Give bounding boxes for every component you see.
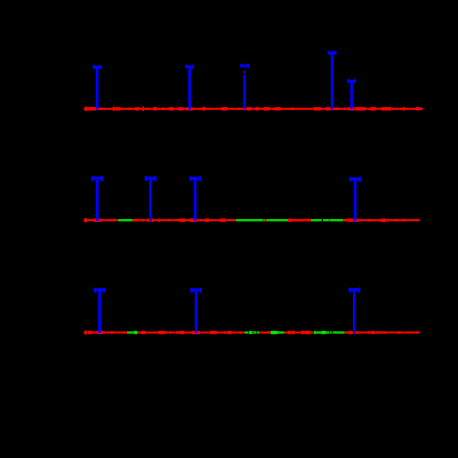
row 1 stem 1 [93, 65, 102, 109]
row 2 stem 4 [349, 177, 361, 221]
row 2 green segment 2 [236, 219, 288, 221]
row 1 stem 4 [328, 51, 337, 110]
row 1 stem 2 [185, 65, 194, 110]
row 2 green underlays [118, 218, 343, 222]
row 2 green segment 1 [118, 219, 132, 221]
row 2 red event marks [84, 219, 420, 222]
row 3 green segment 1 [127, 331, 137, 334]
row 1 stem 3 [240, 64, 249, 110]
row 2 baseline start arrow [83, 218, 86, 222]
row 1 baseline start arrow [83, 107, 86, 111]
row 2 green segment 3 [311, 219, 343, 221]
row 3 green underlays [127, 330, 345, 334]
row 1 baseline end arrow [420, 107, 423, 111]
row 3 red event marks [84, 331, 420, 334]
row 3 green segment 4 [314, 331, 344, 334]
row 2 baseline [84, 219, 420, 221]
row 1 baseline [84, 108, 423, 110]
row 3 baseline [84, 332, 420, 334]
row 2 stem 1 [91, 176, 103, 221]
row 3 baseline start arrow [83, 330, 86, 334]
row 2 stem 2 [145, 176, 157, 221]
row 2 plus ticks [85, 218, 87, 223]
row 3 green segment 2 [245, 331, 260, 334]
row 2 stem 3 [189, 176, 201, 221]
row 1 red event marks [85, 107, 423, 110]
row 3 stem 3 [349, 288, 361, 333]
row 1 plus ticks [85, 107, 144, 112]
row 3 plus ticks [85, 330, 87, 335]
row 1 stem 5 [347, 79, 356, 109]
row 2 red dots over green [263, 219, 330, 221]
row 3 green segment 3 [271, 331, 285, 334]
row 3 stem 2 [190, 288, 202, 333]
row 3 stem 1 [94, 288, 106, 333]
row 1 stem 3 dot [243, 71, 246, 74]
